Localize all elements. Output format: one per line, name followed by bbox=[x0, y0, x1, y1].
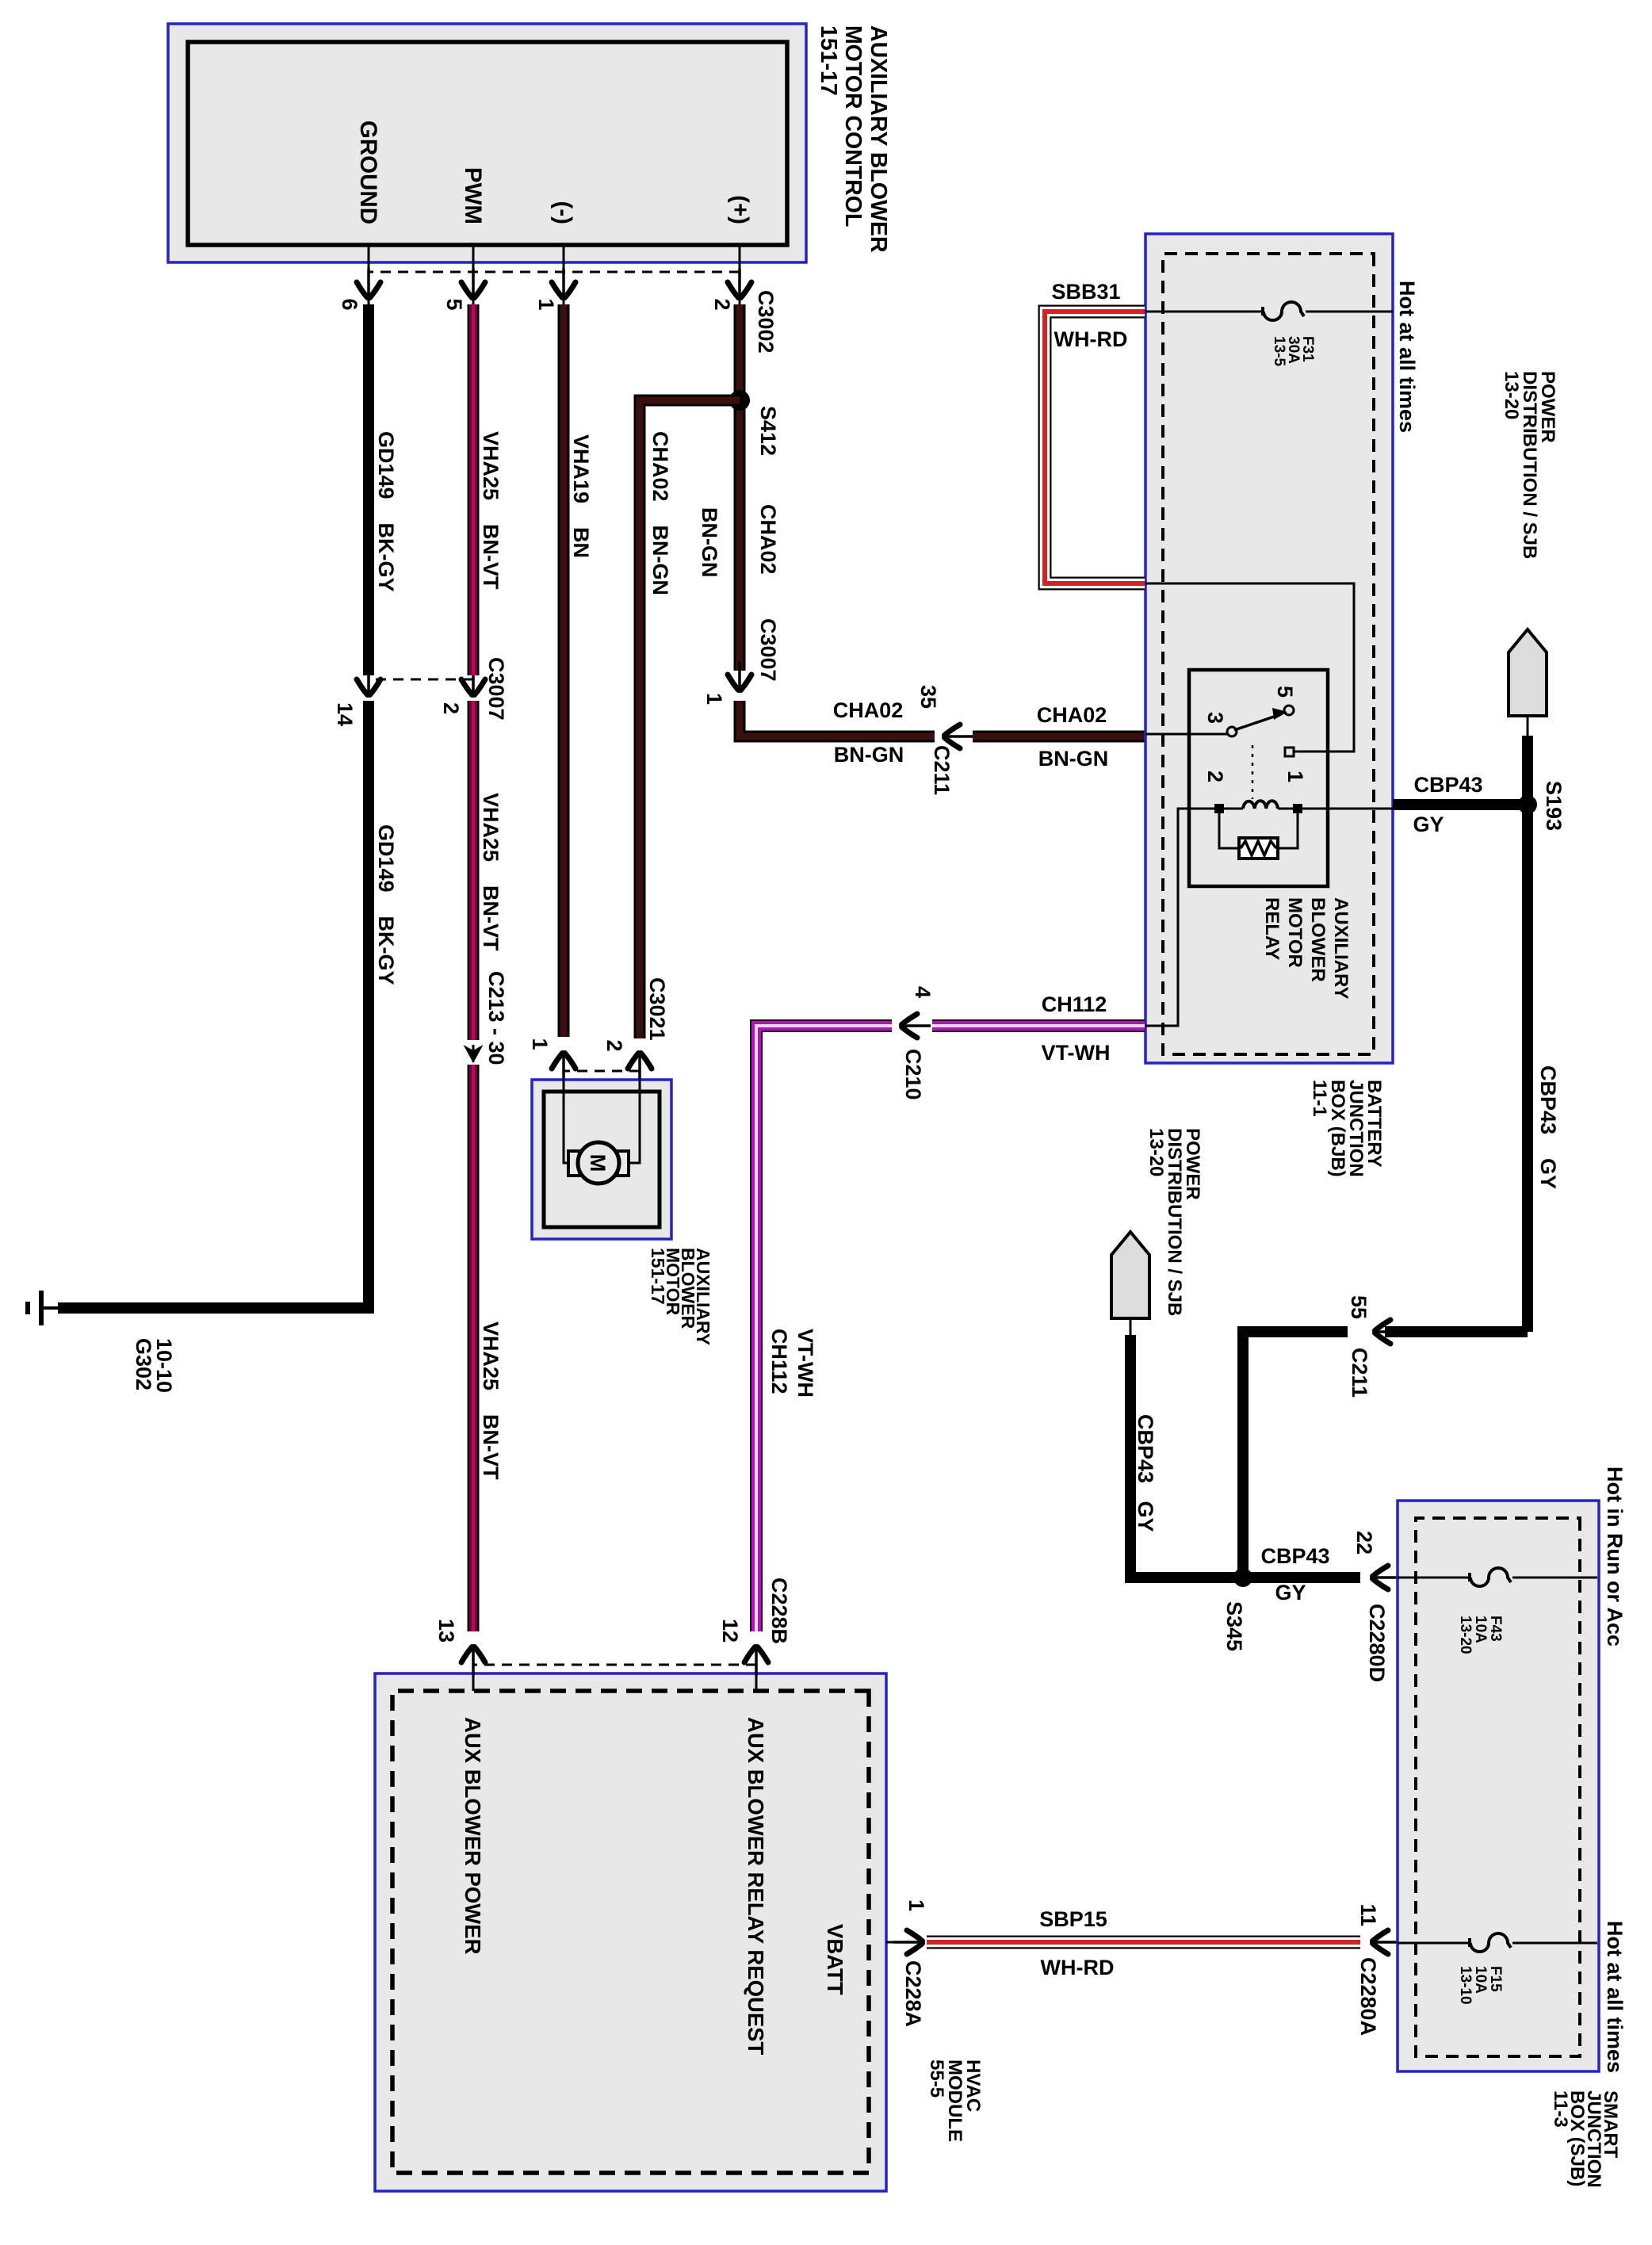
wire CHA02 BN-GN (pin 2 to S412 to C3007) bbox=[734, 304, 746, 671]
wire GY link relay coil to box edge bbox=[1298, 808, 1393, 810]
wire stub pentagon to S193 bbox=[1527, 716, 1529, 736]
label ground G302 10-10 bbox=[132, 1338, 176, 1393]
svg-text:CBP43 GY: CBP43 GY bbox=[1134, 1414, 1157, 1532]
in-line connector C3007 dashed link bbox=[369, 679, 473, 681]
relay switch blade bbox=[1234, 708, 1287, 730]
wire CHA02 BN-GN (C211 to BJB) bbox=[973, 731, 1145, 743]
svg-text:CBP43: CBP43 bbox=[1413, 773, 1482, 797]
svg-text:(+): (+) bbox=[727, 195, 753, 224]
connector arrow C3007 pin 1 bbox=[728, 661, 751, 690]
splice S193 bbox=[1518, 795, 1537, 814]
svg-text:MODULE: MODULE bbox=[944, 2060, 966, 2142]
svg-text:SBP15: SBP15 bbox=[1039, 1907, 1107, 1931]
connector dashed link (HVAC pins) bbox=[473, 1664, 756, 1666]
in-line connector C213-30 arrow bbox=[464, 1045, 484, 1063]
connector arrow C2280A pin 11 bbox=[1373, 1930, 1402, 1954]
svg-text:BATTERY: BATTERY bbox=[1363, 1080, 1385, 1168]
connector C3002 dashed line bbox=[369, 271, 740, 273]
svg-text:MOTOR CONTROL: MOTOR CONTROL bbox=[840, 25, 866, 227]
connector arrow pin 14 bbox=[357, 666, 380, 695]
svg-text:Hot at all times: Hot at all times bbox=[1603, 1921, 1627, 2073]
svg-text:Hot at all times: Hot at all times bbox=[1395, 281, 1419, 433]
svg-text:C211: C211 bbox=[930, 745, 954, 795]
relay pin 1 terminal bbox=[1285, 748, 1294, 756]
wire stub to pentagon 2 bbox=[1130, 1318, 1132, 1335]
wire CHA02 BN-GN (C3007 to corner to C211) bbox=[740, 701, 935, 736]
wire CBP43 GY (pentagon to S193 to corner) bbox=[1522, 736, 1533, 1332]
svg-text:HVAC: HVAC bbox=[962, 2060, 984, 2112]
svg-text:AUX BLOWER POWER: AUX BLOWER POWER bbox=[461, 1717, 485, 1955]
svg-text:(-): (-) bbox=[550, 201, 576, 224]
fuse F43 supply line bbox=[1398, 1577, 1597, 1579]
fuse F31 30A bbox=[1263, 302, 1304, 320]
in-line connector C210 arrow pin 4 bbox=[902, 1014, 931, 1038]
svg-text:CBP43 GY: CBP43 GY bbox=[1536, 1065, 1560, 1189]
svg-text:BLOWER: BLOWER bbox=[1307, 897, 1329, 982]
svg-text:VT-WH: VT-WH bbox=[1042, 1041, 1111, 1065]
svg-text:2: 2 bbox=[1203, 771, 1227, 782]
connector arrow HVAC pin 12 bbox=[744, 1647, 768, 1677]
relay coil bbox=[1214, 801, 1302, 813]
label BATTERY JUNCTION BOX (BJB) 11-1 bbox=[1309, 1080, 1385, 1177]
svg-text:BN-GN: BN-GN bbox=[698, 507, 721, 578]
svg-text:CHA02: CHA02 bbox=[1037, 703, 1107, 727]
in-line connector C211 arrow pin 55 bbox=[1375, 1320, 1405, 1344]
label F43 10A 13-20 bbox=[1457, 1616, 1504, 1654]
wire SBP15 WH-RD (C228A to SJB pin 11) bbox=[927, 1936, 1360, 1949]
svg-text:22: 22 bbox=[1352, 1531, 1376, 1555]
svg-text:GY: GY bbox=[1275, 1581, 1306, 1604]
wire CBP43 GY (S193 down to BJB relay) bbox=[1393, 799, 1528, 810]
svg-text:10A: 10A bbox=[1472, 1966, 1489, 1994]
svg-text:CHA02: CHA02 bbox=[833, 698, 904, 722]
svg-text:10-10: 10-10 bbox=[152, 1338, 176, 1393]
fuse F15 supply line bbox=[1398, 1942, 1597, 1945]
svg-text:13-20: 13-20 bbox=[1145, 1128, 1167, 1176]
splice S412 bbox=[729, 390, 750, 411]
motor M symbol bbox=[568, 1142, 629, 1184]
label HVAC MODULE 55-5 bbox=[926, 2060, 984, 2142]
svg-text:2: 2 bbox=[602, 1039, 626, 1051]
svg-text:CHA02: CHA02 bbox=[756, 504, 780, 575]
wire CBP43 GY (S345 to pentagon 2) bbox=[1130, 1335, 1243, 1578]
connector arrow pin 2 (C3007) bbox=[461, 666, 485, 695]
wire stub pin 22 into SJB bbox=[1386, 1577, 1398, 1579]
off-page connector pentagon (POWER DISTRIBUTION top) bbox=[1509, 629, 1547, 716]
svg-text:M: M bbox=[586, 1154, 610, 1172]
fuse F15 10A bbox=[1470, 1933, 1511, 1952]
svg-text:S193: S193 bbox=[1542, 781, 1566, 831]
svg-text:CHA02 BN-GN: CHA02 BN-GN bbox=[648, 431, 672, 595]
wire CHA02 link to relay pin 3 bbox=[1145, 733, 1227, 736]
svg-text:C3007: C3007 bbox=[756, 618, 780, 682]
label F15 10A 13-10 bbox=[1457, 1966, 1504, 2005]
label: module title AUXILIARY BLOWER MOTOR CONTROL 151-17 bbox=[816, 25, 891, 253]
connector arrow motor pin 2 (C3021) bbox=[628, 1054, 652, 1083]
svg-text:151-17: 151-17 bbox=[816, 25, 841, 96]
svg-text:10A: 10A bbox=[1472, 1616, 1489, 1643]
label SMART JUNCTION BOX (SJB) 11-3 bbox=[1550, 2090, 1621, 2188]
connector arrow C228A pin 1 bbox=[893, 1930, 923, 1954]
svg-text:1: 1 bbox=[904, 1899, 928, 1911]
wire stub HVAC pin 12 bbox=[755, 1660, 758, 1691]
wire motor pin 1 lead bbox=[564, 1066, 568, 1163]
svg-text:13-20: 13-20 bbox=[1457, 1616, 1474, 1654]
svg-text:13: 13 bbox=[434, 1619, 458, 1643]
svg-text:5: 5 bbox=[442, 298, 466, 310]
svg-text:11: 11 bbox=[1356, 1903, 1380, 1926]
module: SMART JUNCTION BOX (SJB) bbox=[1398, 1501, 1599, 2071]
svg-text:AUXILIARY: AUXILIARY bbox=[1330, 897, 1352, 999]
svg-text:2: 2 bbox=[439, 702, 463, 714]
module: AUXILIARY BLOWER MOTOR box bbox=[532, 1080, 671, 1239]
relay pin 5 terminal bbox=[1284, 706, 1294, 715]
svg-text:C3021: C3021 bbox=[645, 977, 669, 1041]
svg-text:1: 1 bbox=[702, 693, 726, 705]
pin stub & connector arrow pin 1 bbox=[552, 245, 576, 304]
svg-text:DISTRIBUTION / SJB: DISTRIBUTION / SJB bbox=[1519, 371, 1540, 559]
svg-text:BN-GN: BN-GN bbox=[1038, 747, 1109, 771]
svg-text:S345: S345 bbox=[1222, 1601, 1246, 1651]
svg-text:PWM: PWM bbox=[460, 167, 486, 224]
wire VHA25 BN-VT segment 3 (C213-30 to HVAC pin 13) bbox=[468, 1065, 480, 1631]
svg-text:VHA25 BN-VT: VHA25 BN-VT bbox=[479, 793, 503, 951]
wire CBP43 GY (C211-55 to S345) bbox=[1243, 1332, 1348, 1578]
wire stub HVAC pin 13 bbox=[472, 1660, 475, 1691]
svg-text:4: 4 bbox=[911, 986, 935, 998]
connector arrow C2280D pin 22 bbox=[1373, 1566, 1402, 1589]
svg-text:12: 12 bbox=[718, 1619, 742, 1643]
svg-text:C3002: C3002 bbox=[754, 290, 778, 354]
wire CH112 VT-WH (BJB to C210) bbox=[932, 1019, 1145, 1032]
svg-text:S412: S412 bbox=[756, 406, 780, 456]
wire motor pin 2 lead bbox=[629, 1066, 640, 1163]
svg-text:VHA25 BN-VT: VHA25 BN-VT bbox=[479, 431, 503, 590]
svg-text:DISTRIBUTION / SJB: DISTRIBUTION / SJB bbox=[1164, 1128, 1185, 1316]
svg-text:MOTOR: MOTOR bbox=[1284, 897, 1306, 968]
svg-text:1: 1 bbox=[534, 298, 558, 310]
svg-text:GROUND: GROUND bbox=[355, 120, 381, 224]
svg-text:14: 14 bbox=[333, 702, 357, 726]
label CHA02 BN-GN (S412-C3007 segment) bbox=[698, 504, 780, 578]
svg-text:C213 - 30: C213 - 30 bbox=[484, 971, 508, 1065]
svg-text:3: 3 bbox=[1203, 712, 1227, 724]
wire CHA02 BN-GN branch (S412 to motor pin 2) bbox=[640, 400, 740, 1038]
svg-text:1: 1 bbox=[528, 1038, 552, 1050]
label POWER DISTRIBUTION / SJB 13-20 (top) bbox=[1501, 371, 1558, 559]
module: HVAC MODULE box bbox=[375, 1673, 886, 2191]
wire relay feed (SBB31 to relay pin 1) bbox=[1145, 583, 1354, 752]
wire GD149 BK-GY segment 1 (pin 6 to C3007) bbox=[363, 304, 374, 675]
svg-text:AUXILIARY BLOWER: AUXILIARY BLOWER bbox=[866, 25, 891, 253]
svg-text:13-20: 13-20 bbox=[1501, 371, 1522, 419]
svg-text:BOX (BJB): BOX (BJB) bbox=[1327, 1080, 1348, 1177]
svg-text:F43: F43 bbox=[1487, 1616, 1504, 1642]
svg-text:SBB31: SBB31 bbox=[1051, 280, 1120, 304]
pin stub & connector arrow pin 6 bbox=[357, 245, 380, 304]
svg-text:G302: G302 bbox=[132, 1338, 155, 1390]
wire CH112 VT-WH (C210 to HVAC pin 12) bbox=[756, 1026, 892, 1631]
relay suppression resistor bbox=[1219, 809, 1298, 859]
label AUXILIARY BLOWER MOTOR 151-17 bbox=[648, 1248, 713, 1345]
svg-text:VHA25 BN-VT: VHA25 BN-VT bbox=[479, 1321, 503, 1480]
module: BATTERY JUNCTION BOX (BJB) bbox=[1145, 234, 1393, 1063]
svg-text:VT-WH: VT-WH bbox=[793, 1329, 817, 1398]
label F31 30A 13-5 bbox=[1271, 336, 1316, 366]
splice S345 bbox=[1233, 1568, 1252, 1587]
connector arrow HVAC pin 13 bbox=[461, 1647, 485, 1677]
svg-text:151-17: 151-17 bbox=[648, 1248, 668, 1305]
svg-text:GY: GY bbox=[1413, 813, 1444, 836]
ground symbol G302 bbox=[28, 1291, 58, 1325]
wire stub HVAC pin 1 VBATT bbox=[886, 1941, 906, 1944]
svg-text:CBP43: CBP43 bbox=[1260, 1544, 1329, 1568]
svg-text:GD149 BK-GY: GD149 BK-GY bbox=[374, 431, 398, 592]
relay: AUXILIARY BLOWER MOTOR RELAY box bbox=[1189, 670, 1328, 886]
module: AUXILIARY BLOWER MOTOR CONTROL bbox=[168, 24, 806, 262]
svg-text:C228A: C228A bbox=[901, 1960, 925, 2027]
svg-text:BN-GN: BN-GN bbox=[834, 743, 904, 767]
connector C3021 dashed link bbox=[564, 1070, 640, 1073]
wire link relay coil to CH112 bbox=[1145, 809, 1219, 1026]
svg-text:RELAY: RELAY bbox=[1261, 897, 1283, 960]
svg-text:C210: C210 bbox=[901, 1049, 925, 1100]
svg-text:C2280A: C2280A bbox=[1356, 1957, 1380, 2036]
svg-text:CH112: CH112 bbox=[1042, 992, 1107, 1016]
svg-text:WH-RD: WH-RD bbox=[1054, 327, 1128, 351]
svg-text:F15: F15 bbox=[1487, 1966, 1504, 1992]
label AUXILIARY BLOWER MOTOR RELAY bbox=[1261, 897, 1352, 999]
connector arrow motor pin 1 (C3021) bbox=[552, 1054, 576, 1083]
wire CBP43 GY (S345 up to SJB pin 22) bbox=[1243, 1572, 1360, 1583]
svg-text:C211: C211 bbox=[1348, 1348, 1371, 1398]
svg-text:AUX BLOWER RELAY REQUEST: AUX BLOWER RELAY REQUEST bbox=[744, 1717, 768, 2056]
svg-text:30A: 30A bbox=[1285, 336, 1302, 364]
svg-text:55: 55 bbox=[1347, 1295, 1371, 1319]
svg-text:VBATT: VBATT bbox=[823, 1924, 847, 1995]
svg-text:CH112: CH112 bbox=[767, 1329, 791, 1394]
svg-text:C2280D: C2280D bbox=[1365, 1604, 1389, 1682]
svg-text:11-1: 11-1 bbox=[1309, 1080, 1330, 1117]
svg-text:GD149 BK-GY: GD149 BK-GY bbox=[374, 824, 398, 985]
wire VHA25 BN-VT segment 1 (pin 5 to C3007) bbox=[468, 304, 480, 675]
svg-text:POWER: POWER bbox=[1182, 1128, 1203, 1200]
svg-text:5: 5 bbox=[1273, 686, 1297, 698]
pin stub & connector arrow pin 2 bbox=[728, 245, 751, 304]
svg-text:POWER: POWER bbox=[1537, 371, 1558, 443]
svg-text:JUNCTION: JUNCTION bbox=[1345, 1080, 1367, 1177]
svg-text:Hot in Run or Acc: Hot in Run or Acc bbox=[1603, 1467, 1627, 1646]
wire VHA25 BN-VT segment 2 (C3007 to C213-30) bbox=[468, 701, 480, 1040]
svg-text:1: 1 bbox=[1283, 771, 1307, 782]
in-line connector C211 arrow pin 35 bbox=[945, 725, 974, 748]
label POWER DISTRIBUTION / SJB 13-20 (lower) bbox=[1145, 1128, 1203, 1316]
svg-text:35: 35 bbox=[916, 685, 940, 709]
fuse F43 10A bbox=[1470, 1568, 1511, 1586]
svg-text:2: 2 bbox=[710, 298, 734, 310]
wire GD149 BK-GY segment 2 (to ground G302) bbox=[58, 701, 369, 1308]
relay pin 3 terminal bbox=[1227, 727, 1237, 736]
svg-text:F31: F31 bbox=[1299, 336, 1316, 362]
svg-text:VHA19 BN: VHA19 BN bbox=[569, 434, 593, 558]
relay actuation dotted line bbox=[1252, 745, 1254, 799]
wire VHA19 BN (pin 1 to motor) bbox=[558, 304, 570, 1037]
svg-text:C3007: C3007 bbox=[484, 657, 508, 721]
fuse F31 supply line bbox=[1145, 311, 1393, 313]
wire CBP43 GY (corner down to C211-55) bbox=[1385, 1326, 1528, 1337]
wire SBB31 WH-RD loop bbox=[1045, 312, 1145, 583]
pin stub & connector arrow pin 5 bbox=[461, 245, 485, 304]
svg-text:6: 6 bbox=[338, 298, 361, 310]
wire stub pin 11 into SJB bbox=[1386, 1941, 1398, 1944]
svg-text:13-10: 13-10 bbox=[1457, 1966, 1474, 2005]
svg-text:13-5: 13-5 bbox=[1271, 336, 1287, 366]
svg-text:55-5: 55-5 bbox=[926, 2060, 947, 2098]
off-page connector pentagon (POWER DISTRIBUTION lower) bbox=[1111, 1232, 1149, 1318]
svg-text:WH-RD: WH-RD bbox=[1041, 1956, 1115, 1979]
svg-text:C228B: C228B bbox=[767, 1578, 791, 1644]
svg-text:11-3: 11-3 bbox=[1550, 2090, 1571, 2128]
